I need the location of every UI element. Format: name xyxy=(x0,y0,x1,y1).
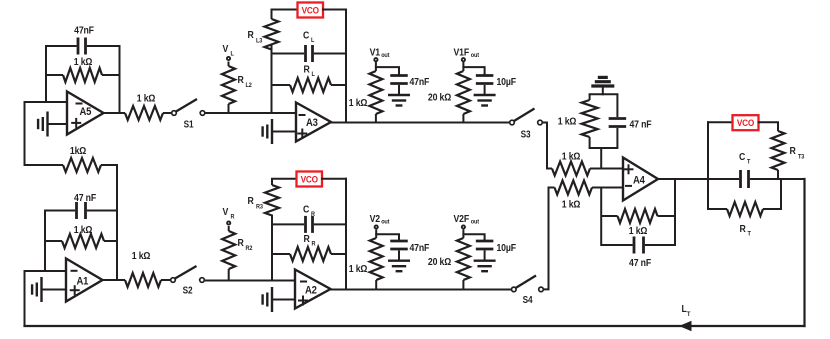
svg-text:R: R xyxy=(740,223,746,235)
svg-text:VCO: VCO xyxy=(301,174,319,185)
node V1out terminal xyxy=(374,58,377,61)
label V1F out xyxy=(454,47,480,60)
node V_L terminal xyxy=(227,57,230,60)
resistor 1 kOhm (A1 output) xyxy=(103,273,171,287)
value label 1 kOhm (V1out) xyxy=(349,97,368,109)
resistor 1 kOhm (V2out) xyxy=(370,230,383,290)
value label 47 nF (A4 bias) xyxy=(630,119,652,131)
wire A3 top feedback to VCO box xyxy=(272,9,298,11)
capacitor 47nF (V2out) xyxy=(390,239,408,261)
arrow L_T on bottom feedback wire xyxy=(679,321,692,332)
wire A4 output to right rail xyxy=(778,178,805,180)
wire VCO box to A2 output rail xyxy=(322,178,346,180)
capacitor 47 nF (A1 feedback) xyxy=(45,202,117,219)
svg-text:L: L xyxy=(231,50,235,58)
svg-text:V1F: V1F xyxy=(454,47,470,59)
resistor 20 kOhm (V1F) xyxy=(457,62,470,123)
svg-text:T: T xyxy=(687,311,691,319)
value label 1 kOhm (A1 feedback) xyxy=(74,224,93,236)
value label 1 kOhm (A4 feedback) xyxy=(629,225,648,237)
svg-text:C: C xyxy=(303,204,309,216)
op-amp A3 xyxy=(296,103,331,142)
value label 20 kOhm (V2F) xyxy=(428,256,452,268)
resistor R_L2 xyxy=(222,62,235,114)
VCO box (T network) xyxy=(733,115,759,130)
wire T network left rail xyxy=(707,122,709,209)
node V2Fout terminal xyxy=(462,225,465,228)
capacitor 47 nF (A4 feedback) xyxy=(601,237,675,254)
value label 47 nF (A4 feedback) xyxy=(629,257,651,269)
wire A5 inverting input xyxy=(25,101,68,103)
wire A1 feedback left rail xyxy=(44,211,46,272)
svg-text:R: R xyxy=(248,29,254,41)
resistor R_L xyxy=(272,78,347,92)
svg-text:1 kΩ: 1 kΩ xyxy=(562,151,581,163)
label R_L3 xyxy=(248,29,263,44)
wire S4 to summing resistor xyxy=(544,188,549,290)
wire A2 feedback right rail xyxy=(345,179,347,290)
wire A2 output bus xyxy=(331,289,511,291)
value label 10uF (V1F) xyxy=(497,76,517,88)
capacitor 10uF (V1F) xyxy=(476,73,494,95)
capacitor C_T xyxy=(737,170,778,188)
ground above A4 bias network xyxy=(591,77,614,86)
svg-text:47 nF: 47 nF xyxy=(74,192,96,204)
svg-text:1 kΩ: 1 kΩ xyxy=(562,199,581,211)
value label 1 kOhm (A4 bias) xyxy=(558,116,577,128)
wire cross resistor to A1 output rail xyxy=(116,165,118,280)
wire A2 feedback left rail xyxy=(271,216,273,281)
wire T top to VCO box xyxy=(708,121,733,123)
resistor 1 kOhm (cross coupling) xyxy=(25,158,118,172)
svg-text:L3: L3 xyxy=(256,37,263,45)
wire A4 output xyxy=(658,178,737,180)
svg-text:47nF: 47nF xyxy=(74,25,94,37)
resistor R_T3 xyxy=(772,122,785,179)
label C_L xyxy=(303,30,315,44)
resistor 20 kOhm (V2F) xyxy=(457,230,470,290)
svg-text:T3: T3 xyxy=(798,153,805,161)
wire V2Fout to filter capacitor xyxy=(463,234,484,240)
wire ground stem (A4 bias) xyxy=(602,86,604,94)
svg-text:out: out xyxy=(471,52,479,60)
wire V2out to filter capacitor xyxy=(376,234,399,240)
resistor 1 kOhm (A4 bias) xyxy=(582,94,598,148)
svg-text:T: T xyxy=(747,158,751,166)
label R_T xyxy=(740,223,752,237)
switch S2 xyxy=(171,266,205,296)
op-amp A1 xyxy=(66,259,103,302)
svg-text:V: V xyxy=(223,43,229,55)
VCO box (A2 feedback) xyxy=(297,172,323,187)
label R_R2 xyxy=(238,237,253,252)
capacitor 47nF (V1out) xyxy=(390,73,408,95)
value label 20 kOhm (V1F) xyxy=(428,92,452,104)
svg-text:S3: S3 xyxy=(521,129,531,140)
label R_R3 xyxy=(248,195,264,210)
label C_R xyxy=(303,204,316,218)
capacitor 10uF (V2F) xyxy=(476,239,494,261)
svg-text:10µF: 10µF xyxy=(497,76,517,88)
svg-text:20 kΩ: 20 kΩ xyxy=(428,92,452,104)
switch S1 xyxy=(172,99,205,130)
wire A1 inverting input xyxy=(25,270,67,272)
value label 47 nF (A1 feedback) xyxy=(74,192,96,204)
resistor 1 kOhm (V1out) xyxy=(369,62,382,123)
wire A3 feedback left rail xyxy=(271,46,273,113)
wire S1 to A3 inverting input xyxy=(206,112,297,114)
svg-text:10µF: 10µF xyxy=(497,242,517,254)
svg-text:L: L xyxy=(311,37,315,45)
wire A4 feedback right rail xyxy=(674,179,676,245)
value label 1 kOhm (A5 feedback) xyxy=(74,56,93,68)
resistor 1 kOhm (A4 feedback) xyxy=(601,209,675,223)
op-amp A4 xyxy=(623,158,658,201)
resistor 1 kOhm (A1 feedback) xyxy=(45,234,117,248)
svg-text:20 kΩ: 20 kΩ xyxy=(428,256,452,268)
svg-text:1 kΩ: 1 kΩ xyxy=(349,263,368,275)
wire R_T right rail xyxy=(780,179,782,209)
switch S3 xyxy=(510,109,543,140)
svg-text:L: L xyxy=(312,71,316,79)
svg-text:VCO: VCO xyxy=(302,5,320,16)
svg-text:L: L xyxy=(682,303,687,315)
resistor R_R xyxy=(272,247,346,261)
ground below 47nF (V2out) xyxy=(388,261,410,272)
wire bottom feedback rail xyxy=(25,325,805,327)
svg-text:T: T xyxy=(748,230,752,238)
value label 1 kOhm (V2out) xyxy=(349,263,368,275)
wire S3 to summing resistor xyxy=(543,123,547,169)
value label 1 kOhm (S3 branch) xyxy=(562,151,581,163)
wire A5 feedback left rail xyxy=(45,46,47,102)
ground at A2 non-inverting input xyxy=(263,287,272,312)
wire A2 top feedback to VCO box xyxy=(272,178,297,180)
value label 47nF (V2out) xyxy=(410,242,430,254)
svg-text:S2: S2 xyxy=(183,285,193,296)
resistor R_R2 xyxy=(222,226,235,281)
wire S2 to A2 inverting input xyxy=(205,280,295,282)
wire A4 bias to non-inverting input xyxy=(600,148,602,169)
node V1Fout terminal xyxy=(462,58,465,61)
switch S4 xyxy=(512,276,544,306)
label R_L2 xyxy=(238,74,253,89)
resistor R_T xyxy=(708,202,781,216)
resistor R_R3 xyxy=(265,179,279,225)
svg-text:out: out xyxy=(471,218,479,226)
ground at A1 non-inverting input xyxy=(32,277,41,302)
svg-text:out: out xyxy=(381,52,389,60)
wire A5 inverting input to cross resistor xyxy=(24,102,26,165)
svg-text:47 nF: 47 nF xyxy=(629,257,651,269)
op-amp A2 xyxy=(295,270,331,309)
svg-text:V2F: V2F xyxy=(454,213,470,225)
ground below 47nF (V1out) xyxy=(388,95,410,106)
svg-text:A5: A5 xyxy=(80,106,92,118)
resistor 1 kOhm (A5 output) xyxy=(104,106,172,120)
wire A3 non-inverting input xyxy=(272,131,296,133)
label V2F out xyxy=(454,213,480,226)
svg-text:out: out xyxy=(381,218,389,226)
svg-text:A4: A4 xyxy=(633,175,645,187)
resistor 1 kOhm (S3 to A4 +) xyxy=(547,162,623,176)
node V2out terminal xyxy=(375,225,378,228)
svg-text:1 kΩ: 1 kΩ xyxy=(349,97,368,109)
svg-text:R3: R3 xyxy=(256,203,263,211)
ground below 10uF (V2F) xyxy=(474,261,496,272)
label V_R xyxy=(223,206,236,220)
capacitor 47 nF (A4 bias) xyxy=(609,94,627,148)
svg-text:1 kΩ: 1 kΩ xyxy=(132,250,151,262)
svg-text:47nF: 47nF xyxy=(410,242,430,254)
svg-text:R: R xyxy=(790,145,796,157)
value label 1 kOhm (A5 output) xyxy=(137,93,156,105)
VCO box (A3 feedback) xyxy=(298,3,324,18)
svg-text:1 kΩ: 1 kΩ xyxy=(558,116,577,128)
svg-text:C: C xyxy=(739,151,745,163)
label V2out xyxy=(370,213,390,226)
ground at A5 non-inverting input xyxy=(38,112,47,137)
svg-text:S1: S1 xyxy=(184,119,194,130)
svg-text:R: R xyxy=(238,74,244,86)
wire A5 feedback right rail xyxy=(119,46,121,113)
label R_L xyxy=(304,64,316,78)
svg-text:1 kΩ: 1 kΩ xyxy=(629,225,648,237)
svg-text:VCO: VCO xyxy=(737,117,755,128)
label R_R xyxy=(304,233,317,247)
svg-text:R2: R2 xyxy=(246,245,253,253)
svg-text:A2: A2 xyxy=(305,285,317,297)
wire A1 inverting input down to bottom rail xyxy=(24,271,26,326)
wire V1out to filter capacitor xyxy=(376,67,399,75)
wire A5 non-inverting input xyxy=(48,123,68,125)
wire A4 bias network top xyxy=(590,93,618,95)
wire VCO box to R_T3 xyxy=(759,121,779,123)
svg-text:R: R xyxy=(304,64,310,76)
capacitor 47nF (A5 feedback) xyxy=(46,38,120,55)
label V1out xyxy=(370,47,390,60)
wire A4 bias network bottom xyxy=(590,147,618,149)
wire A4 feedback left rail xyxy=(600,188,602,246)
svg-text:V: V xyxy=(223,206,229,218)
svg-text:1 kΩ: 1 kΩ xyxy=(74,56,93,68)
label C_T xyxy=(739,151,751,165)
ground below 10uF (V1F) xyxy=(474,95,496,106)
svg-text:V2: V2 xyxy=(370,213,380,225)
svg-text:1kΩ: 1kΩ xyxy=(70,145,87,157)
svg-text:V1: V1 xyxy=(370,47,381,59)
svg-text:A3: A3 xyxy=(306,118,318,130)
svg-text:A1: A1 xyxy=(77,276,89,288)
label R_T3 xyxy=(790,145,805,160)
wire V1Fout to filter capacitor xyxy=(463,67,484,75)
svg-text:S4: S4 xyxy=(523,294,533,305)
svg-text:L2: L2 xyxy=(246,82,253,90)
capacitor C_L xyxy=(272,45,347,62)
label L_T (feedback current) xyxy=(682,303,691,318)
resistor 1 kOhm (A5 feedback) xyxy=(46,68,120,82)
wire VCO box to A3 output rail xyxy=(323,9,346,11)
wire A1 non-inverting input xyxy=(42,289,67,291)
value label 1 kOhm (A1 output) xyxy=(132,250,151,262)
svg-text:R: R xyxy=(238,237,244,249)
svg-text:1 kΩ: 1 kΩ xyxy=(137,93,156,105)
resistor R_L3 xyxy=(265,10,279,54)
ground at A3 non-inverting input xyxy=(263,119,272,144)
value label 47nF (A5 feedback) xyxy=(74,25,94,37)
value label 1 kOhm (cross coupling) xyxy=(70,145,87,157)
value label 1 kOhm (S4 branch) xyxy=(562,199,581,211)
resistor 1 kOhm (S4 to A4 -) xyxy=(549,181,624,195)
svg-text:47 nF: 47 nF xyxy=(630,119,652,131)
value label 47nF (V1out) xyxy=(410,76,430,88)
op-amp A5 xyxy=(67,92,104,135)
svg-text:R: R xyxy=(248,195,254,207)
node V_R terminal xyxy=(227,221,230,224)
label V_L xyxy=(223,43,235,57)
svg-text:47nF: 47nF xyxy=(410,76,430,88)
svg-text:1 kΩ: 1 kΩ xyxy=(74,224,93,236)
value label 10uF (V2F) xyxy=(497,242,517,254)
wire right feedback rail down xyxy=(803,179,805,326)
wire A2 non-inverting input xyxy=(272,299,295,301)
svg-text:R: R xyxy=(304,233,310,245)
svg-text:C: C xyxy=(303,30,309,42)
wire A3 feedback right rail xyxy=(345,10,347,123)
wire A3 output bus xyxy=(331,122,509,124)
capacitor C_R xyxy=(272,216,346,233)
